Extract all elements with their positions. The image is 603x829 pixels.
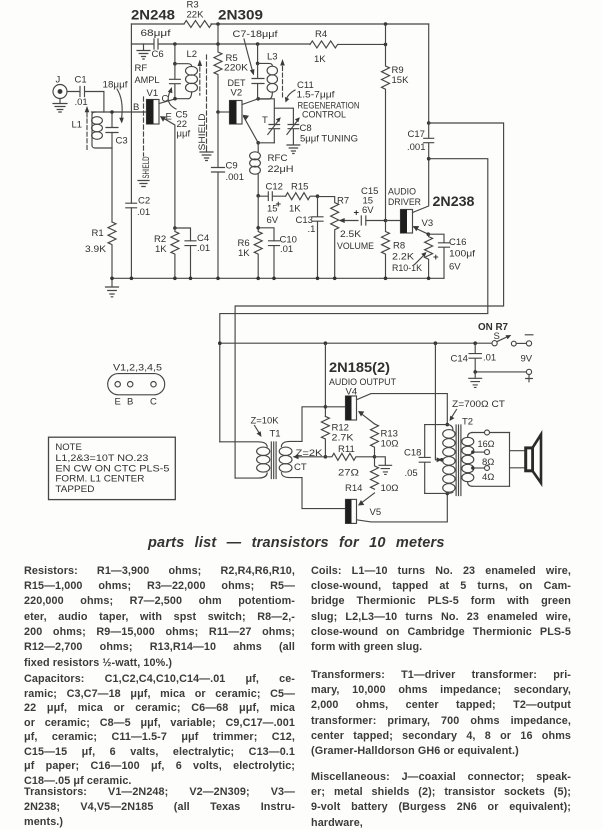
slug arrow L3 (280, 59, 285, 97)
top rail wire (131, 23, 428, 25)
resistor R15 (286, 193, 318, 200)
coil L3 (258, 63, 278, 99)
switch S (492, 335, 526, 346)
capacitor C15 (361, 216, 385, 225)
left rail wire (130, 24, 132, 278)
ground shield C (200, 148, 213, 161)
feed wire C6 to R4 (175, 43, 310, 45)
svg-text:T2: T2 (462, 417, 473, 428)
ground symbol main (106, 278, 119, 297)
ground shield B (138, 181, 149, 187)
speaker (510, 433, 542, 487)
coaxial connector J (53, 85, 67, 99)
svg-text:C8: C8 (300, 123, 312, 134)
node C10 (256, 226, 274, 241)
T1 core (271, 442, 276, 479)
T2 core (456, 425, 461, 496)
parts list: transformers paragraph (311, 669, 571, 761)
svg-text:C17: C17 (408, 129, 425, 140)
capacitor C10 (269, 241, 280, 278)
arrow Z=10K (255, 426, 262, 438)
parts list: transistors paragraph (24, 786, 295, 829)
coil L2 (175, 66, 197, 98)
CT wire arrow (293, 454, 326, 459)
arrow Z=700 (450, 410, 457, 422)
ground at C8 (287, 145, 300, 154)
svg-text:.01: .01 (483, 353, 496, 364)
capacitor C16 (428, 234, 449, 278)
parts list: capacitors paragraph (24, 673, 295, 789)
V3 emitter wire (413, 226, 430, 236)
svg-text:.1: .1 (308, 224, 316, 235)
node V3 base (384, 219, 401, 223)
svg-text:6V: 6V (267, 215, 279, 226)
capacitor C1 (67, 87, 104, 113)
shield dashed L2 stage (206, 55, 208, 148)
svg-text:RF: RF (135, 63, 148, 74)
resistor R5 (214, 44, 222, 112)
V4 collector wire (357, 394, 448, 425)
R7 wiper arrow (339, 218, 358, 223)
svg-text:E: E (115, 397, 121, 408)
transformer T2 secondary (462, 433, 474, 487)
transistor V2 (230, 101, 243, 125)
svg-text:220K: 220K (224, 63, 249, 74)
svg-text:10Ω: 10Ω (381, 439, 399, 450)
svg-text:B: B (127, 397, 133, 408)
wire B- to T2 CT (435, 343, 443, 462)
wire R12 feed (324, 343, 326, 416)
svg-text:R11: R11 (338, 444, 355, 455)
arrow C5 label (168, 87, 176, 109)
svg-text:.01: .01 (137, 207, 150, 218)
arrow C7 label (244, 39, 254, 76)
capacitor C4 (185, 241, 196, 278)
svg-text:R15: R15 (291, 182, 308, 193)
svg-text:AUDIO: AUDIO (388, 187, 416, 198)
wire L1 to R1 (111, 148, 113, 222)
svg-text:B: B (133, 102, 139, 113)
svg-text:R10-1K: R10-1K (392, 263, 423, 274)
node C13/R7 (316, 194, 320, 198)
resistor R3 (184, 21, 212, 28)
svg-text:Z=700Ω CT: Z=700Ω CT (452, 399, 505, 410)
arrow 18uuf to C3 (117, 89, 124, 124)
svg-text:68μμf: 68μμf (141, 28, 171, 39)
capacitor C2 (126, 203, 137, 208)
capacitor C3 (106, 110, 118, 148)
wire T1 sec top to V4 base (302, 407, 346, 442)
slug arrow L2 (198, 60, 203, 96)
node C12 (256, 194, 260, 198)
parts list: miscellaneous paragraph (311, 771, 571, 829)
parts list title (148, 535, 458, 551)
parts list: resistors paragraph (24, 565, 295, 673)
svg-text:4Ω: 4Ω (482, 472, 494, 483)
node V2 emitter (256, 141, 274, 145)
parts list: coils paragraph (311, 565, 571, 657)
V1 emitter wire (160, 116, 175, 228)
node R3/2N309 (216, 22, 220, 46)
resistor R9 (382, 44, 390, 220)
wire T1 sec bottom to V5 base (302, 478, 346, 509)
svg-text:T: T (262, 115, 268, 126)
svg-text:100μf: 100μf (449, 249, 475, 260)
svg-text:L1: L1 (72, 120, 83, 131)
svg-text:.01: .01 (197, 243, 210, 254)
svg-text:R1: R1 (92, 228, 104, 239)
transformer T1 primary (220, 442, 270, 478)
svg-text:VOLUME: VOLUME (337, 241, 374, 252)
svg-text:.001: .001 (226, 172, 245, 183)
svg-text:R14: R14 (345, 483, 362, 494)
svg-text:C3: C3 (116, 136, 128, 147)
capacitor C14 (469, 343, 481, 374)
svg-text:2N185(2): 2N185(2) (329, 360, 390, 375)
svg-text:2N309: 2N309 (218, 8, 263, 23)
arrow C11 (287, 90, 296, 99)
transistor V5 (346, 499, 357, 523)
speaker taps (471, 430, 509, 486)
svg-text:V1,2,3,4,5: V1,2,3,4,5 (113, 363, 162, 374)
resistor R8 (382, 221, 390, 279)
svg-text:Z=10K: Z=10K (251, 416, 280, 427)
battery minus terminal (525, 335, 533, 346)
node R11/R13/R14 (373, 455, 377, 459)
ground at R11 (375, 457, 392, 475)
wire V2 base (216, 110, 229, 114)
svg-text:Z=2K: Z=2K (296, 448, 324, 459)
svg-text:C9: C9 (226, 161, 238, 172)
svg-text:C: C (150, 397, 157, 408)
ground at C6 (137, 44, 150, 59)
svg-text:1K: 1K (289, 204, 301, 215)
svg-text:L1,2&3=10T NO.23: L1,2&3=10T NO.23 (55, 453, 148, 464)
trimmer T (268, 117, 281, 143)
wire base V1 (92, 111, 147, 113)
tank L3 feed (256, 42, 260, 65)
ground bus (111, 277, 444, 279)
svg-text:C14: C14 (451, 354, 468, 365)
svg-text:15: 15 (267, 204, 278, 215)
potentiometer R10 (415, 234, 433, 278)
svg-text:27Ω: 27Ω (338, 468, 359, 479)
svg-text:9V: 9V (521, 354, 533, 365)
capacitor C7 (252, 63, 264, 99)
svg-text:RFC: RFC (268, 153, 288, 164)
V1 collector wire (159, 99, 175, 104)
resistor R2 (171, 228, 179, 278)
svg-text:.05: .05 (405, 468, 418, 479)
svg-text:NOTE: NOTE (55, 442, 81, 453)
svg-text:J: J (56, 75, 61, 86)
svg-text:2.2K: 2.2K (392, 252, 415, 263)
svg-text:1K: 1K (238, 248, 250, 259)
svg-text:SHIELD: SHIELD (141, 157, 151, 179)
svg-text:AMPL: AMPL (135, 75, 160, 86)
node L2 feed (173, 42, 177, 64)
capacitor C12 (258, 192, 285, 201)
svg-text:2.7K: 2.7K (332, 433, 355, 444)
V5 collector wire (357, 493, 448, 522)
svg-text:μμf: μμf (177, 129, 191, 140)
tank L2 top (173, 62, 192, 67)
svg-text:T1: T1 (270, 429, 281, 440)
svg-text:DRIVER: DRIVER (388, 197, 421, 208)
V3 collector wire (413, 159, 429, 213)
capacitor C5 (170, 64, 181, 101)
svg-text:+: + (433, 252, 439, 263)
svg-text:V4: V4 (346, 387, 358, 398)
resistor R14 (371, 457, 379, 489)
svg-text:2.5K: 2.5K (340, 229, 362, 240)
svg-text:C7-18μμf: C7-18μμf (233, 29, 278, 40)
resistor R13 (371, 424, 379, 457)
svg-text:1K: 1K (314, 54, 326, 65)
transformer T2 primary (425, 423, 455, 495)
transistor V1 (147, 100, 160, 125)
svg-text:10Ω: 10Ω (381, 483, 399, 494)
resistor R4 (310, 41, 386, 48)
V4 emitter wire (358, 411, 375, 424)
svg-text:8Ω: 8Ω (482, 457, 494, 468)
slug arrow L1 (85, 106, 90, 150)
resistor R12 (321, 405, 329, 459)
svg-text:R8: R8 (393, 241, 405, 252)
svg-text:TAPPED: TAPPED (55, 484, 94, 495)
svg-text:L2: L2 (187, 49, 198, 60)
resistor R6 (254, 196, 262, 278)
wire to inner loop (220, 159, 488, 442)
capacitor C6 (131, 39, 175, 49)
transistor V3 (401, 210, 413, 234)
V5 emitter wire (358, 493, 375, 506)
coil RFC (250, 143, 261, 196)
battery plus terminal (475, 369, 532, 382)
V2 emitter wire (243, 115, 259, 143)
capacitor C13 (312, 196, 323, 278)
wire to outer loop (235, 123, 504, 478)
svg-text:3.9K: 3.9K (85, 244, 107, 255)
coil L1 (92, 112, 112, 148)
transistor socket (108, 374, 165, 395)
ground under J (53, 99, 67, 113)
capacitor C18 (419, 425, 430, 494)
svg-text:AUDIO OUTPUT: AUDIO OUTPUT (329, 377, 396, 388)
V2 collector wire (242, 97, 260, 105)
resistor R11 (325, 453, 374, 460)
svg-text:1.5-7μμf: 1.5-7μμf (297, 90, 335, 101)
ground at C14 (469, 372, 482, 388)
svg-text:CONTROL: CONTROL (302, 110, 346, 121)
switch line wire (218, 341, 492, 345)
svg-text:S: S (494, 331, 500, 342)
transistor V4 (346, 396, 357, 420)
svg-text:+: + (354, 208, 360, 219)
resistor R1 (108, 222, 116, 278)
svg-text:C1: C1 (75, 75, 87, 86)
svg-text:15K: 15K (392, 75, 410, 86)
wire top rail corner (428, 24, 430, 123)
wire V2 collector to trimmers (258, 99, 293, 125)
svg-text:16Ω: 16Ω (478, 439, 495, 450)
svg-text:18μμf: 18μμf (103, 80, 128, 91)
node R9 top (384, 22, 388, 46)
svg-text:C6: C6 (152, 49, 164, 60)
node R2/C4 (173, 226, 190, 241)
svg-text:CT: CT (294, 462, 307, 473)
svg-text:C16: C16 (449, 237, 466, 248)
svg-text:2N238: 2N238 (433, 194, 476, 209)
svg-text:C2: C2 (138, 196, 150, 207)
svg-text:V3: V3 (422, 218, 434, 229)
svg-text:6V: 6V (449, 262, 461, 273)
potentiometer R7 (318, 197, 339, 279)
svg-text:22μH: 22μH (268, 164, 294, 175)
svg-text:R4: R4 (315, 29, 327, 40)
svg-text:2N248: 2N248 (131, 8, 176, 23)
svg-text:C: C (162, 94, 169, 105)
svg-text:C18: C18 (404, 448, 421, 459)
svg-text:V2: V2 (231, 88, 243, 99)
trimmer C11/C8 (287, 117, 300, 144)
svg-text:.01: .01 (280, 244, 293, 255)
svg-text:C12: C12 (266, 182, 283, 193)
svg-text:.01: .01 (75, 97, 88, 108)
svg-text:5μμf TUNING: 5μμf TUNING (300, 134, 358, 145)
capacitor C9 (212, 112, 225, 278)
svg-text:V1: V1 (147, 88, 159, 99)
svg-text:SHIELD: SHIELD (197, 114, 207, 151)
svg-text:V5: V5 (370, 507, 382, 518)
svg-text:L3: L3 (267, 52, 278, 63)
svg-text:R7: R7 (337, 196, 349, 207)
svg-text:6V: 6V (362, 205, 374, 216)
svg-text:E: E (166, 112, 172, 123)
svg-text:1K: 1K (155, 244, 167, 255)
svg-text:FORM. L1 CENTER: FORM. L1 CENTER (55, 474, 144, 485)
bus junction dots (110, 277, 430, 281)
transformer T1 secondary (279, 441, 302, 477)
svg-text:22K: 22K (187, 10, 205, 21)
svg-text:.001: .001 (407, 142, 426, 153)
note box (49, 437, 176, 499)
shield dashed V1 stage (143, 97, 145, 156)
capacitor C17 (424, 121, 434, 160)
